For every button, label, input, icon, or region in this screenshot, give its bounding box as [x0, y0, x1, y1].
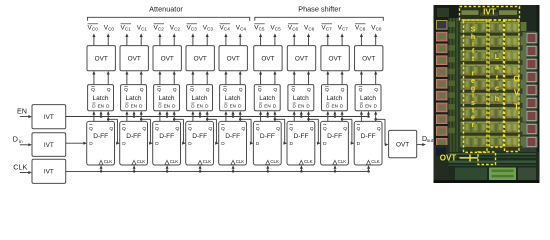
- annotation vertical label OVT column: [513, 75, 519, 112]
- svg-text:EN: EN: [230, 104, 236, 109]
- svg-text:Q: Q: [173, 87, 177, 93]
- latch Latch9: [355, 85, 381, 111]
- annotation label IVT: [483, 8, 496, 17]
- svg-text:C7: C7: [326, 27, 332, 32]
- op-amp OVT9 output voltage translator: [355, 46, 383, 71]
- svg-text:CLK: CLK: [137, 159, 146, 164]
- latch Latch4: [187, 85, 213, 111]
- node Vbar_C4 control output: [220, 24, 231, 32]
- svg-text:Q: Q: [155, 126, 159, 132]
- svg-text:EN: EN: [365, 104, 371, 109]
- svg-text:Q: Q: [356, 126, 360, 132]
- svg-text:Q: Q: [239, 87, 243, 93]
- svg-text:OVT: OVT: [362, 56, 375, 63]
- flip-flop DFF4: [186, 121, 214, 165]
- wire DFF1 Q to Latch1 D, junction: [107, 111, 110, 121]
- wire Latch3 Qbar to OVT3: [158, 71, 161, 85]
- wire DFF7 Q to Latch7 D, junction: [307, 111, 310, 121]
- node Vbar_C1 control output: [121, 24, 132, 32]
- svg-text:Latch: Latch: [360, 95, 376, 102]
- flip-flop DFF7: [287, 121, 315, 165]
- label Phase shifter group title: [298, 4, 341, 13]
- wire DFF2 Qbar to Latch2 Dbar: [125, 111, 128, 121]
- svg-text:OVT: OVT: [261, 56, 274, 63]
- wire Latch2 Qbar to OVT2: [125, 71, 128, 85]
- chip standard-cell rows: [460, 19, 520, 152]
- node V_C8 control output: [371, 24, 382, 31]
- wire DFF3 Qbar to Latch3 Dbar: [158, 111, 161, 121]
- chip bottom traces: [434, 145, 540, 183]
- svg-text:i: i: [472, 41, 474, 48]
- svg-text:C1: C1: [125, 27, 131, 32]
- wire OVT8 output V_C7: [341, 33, 344, 45]
- node V_C2 control output: [170, 24, 181, 31]
- svg-text:Q: Q: [323, 126, 327, 132]
- svg-text:C0: C0: [108, 27, 114, 32]
- chip routing strip: [448, 18, 460, 152]
- svg-text:out: out: [427, 138, 434, 144]
- svg-text:Phase shifter: Phase shifter: [298, 4, 341, 13]
- svg-text:Q: Q: [142, 126, 146, 132]
- node Vbar_C0 control output: [88, 24, 99, 32]
- annotation label OVT with pointer: [440, 154, 478, 163]
- svg-text:IVT: IVT: [483, 8, 496, 17]
- wire Latch4 Qbar to OVT4: [191, 71, 194, 85]
- svg-text:CLK: CLK: [13, 163, 27, 172]
- wire OVT2 output V_C1: [140, 33, 143, 45]
- svg-text:OVT: OVT: [396, 142, 409, 149]
- svg-text:Q: Q: [91, 87, 95, 93]
- wire DFF1 Qbar to Latch1 Dbar: [92, 111, 95, 121]
- svg-text:C1: C1: [141, 27, 147, 32]
- svg-text:Q: Q: [140, 87, 144, 93]
- node Vbar_C7 control output: [321, 24, 332, 32]
- inverter IVT2 (Din buffer): [32, 133, 66, 157]
- wire CLK bus tap to DFF9, junction: [367, 165, 370, 172]
- wire OVT6 output V_C5: [273, 33, 276, 45]
- wire CLK bus: [66, 170, 369, 172]
- wire Latch7 Qbar to OVT7: [293, 71, 296, 85]
- svg-text:Q: Q: [190, 87, 194, 93]
- wire Latch1 Qbar to OVT1: [92, 71, 95, 85]
- op-amp OVT4 output voltage translator: [186, 46, 214, 71]
- annotation Shift register dashed box: [464, 20, 488, 152]
- wire DFF8 Qbar to Latch8 Dbar: [326, 111, 329, 121]
- svg-text:IVT: IVT: [44, 142, 54, 149]
- svg-text:Latch: Latch: [159, 95, 175, 102]
- svg-text:Q: Q: [241, 126, 245, 132]
- wire EN bus: [66, 116, 369, 118]
- label Attenuator group title: [149, 4, 183, 13]
- svg-text:Latch: Latch: [293, 95, 309, 102]
- chip micrograph background: [434, 5, 540, 183]
- wire OVT9 output V_C8: [374, 33, 377, 45]
- svg-text:Q: Q: [256, 126, 260, 132]
- wire Latch3 Q to OVT3: [173, 71, 176, 85]
- wire EN bus tap to Latch4 EN, junction: [198, 111, 201, 118]
- svg-text:Q: Q: [221, 126, 225, 132]
- wire DFF6 Q to DFF7 D: [275, 119, 287, 144]
- svg-text:EN: EN: [131, 104, 137, 109]
- svg-text:D-FF: D-FF: [225, 133, 240, 140]
- svg-text:EN: EN: [264, 104, 270, 109]
- svg-text:C5: C5: [275, 27, 281, 32]
- svg-text:CLK: CLK: [304, 159, 313, 164]
- wire DFF5 Q to DFF6 D: [240, 119, 253, 144]
- wire CLK input to IVT3: [20, 171, 32, 174]
- latch Latch1: [88, 85, 114, 111]
- svg-text:C7: C7: [342, 27, 348, 32]
- wire DFF7 Qbar to Latch7 Dbar: [293, 111, 296, 121]
- svg-text:D-FF: D-FF: [260, 133, 275, 140]
- node V_C0 control output: [104, 24, 115, 31]
- node V_C6 control output: [304, 24, 315, 31]
- flip-flop DFF9: [354, 121, 382, 165]
- inverter IVT3 (CLK buffer): [32, 159, 66, 183]
- svg-text:C3: C3: [191, 27, 197, 32]
- wire EN bus tap to Latch6 EN, junction: [266, 111, 269, 118]
- svg-text:Q: Q: [107, 87, 111, 93]
- svg-text:g: g: [471, 85, 475, 92]
- svg-text:CLK: CLK: [270, 159, 279, 164]
- svg-text:C5: C5: [259, 27, 265, 32]
- flip-flop DFF2: [120, 121, 148, 165]
- wire Latch4 Q to OVT4: [206, 71, 209, 85]
- node V_C7 control output: [338, 24, 349, 31]
- svg-text:C4: C4: [240, 27, 246, 32]
- wire DFF2 Q to DFF3 D: [141, 119, 153, 144]
- wire OVT9 output Vbar_C8: [360, 33, 363, 45]
- wire OVT8 output Vbar_C7: [326, 33, 329, 45]
- op-amp OVT2 output voltage translator: [120, 46, 148, 71]
- latch Latch7: [288, 85, 314, 111]
- svg-text:EN: EN: [17, 107, 27, 116]
- svg-text:Attenuator: Attenuator: [149, 4, 183, 13]
- svg-text:OVT: OVT: [227, 56, 240, 63]
- wire CLK bus tap to DFF6, junction: [266, 165, 269, 172]
- latch Latch3: [154, 85, 180, 111]
- flip-flop DFF5: [219, 121, 247, 165]
- wire DFF3 Q to Latch3 D, junction: [173, 111, 176, 121]
- annotation vertical label Shift register: [471, 27, 476, 130]
- svg-text:Q: Q: [377, 126, 381, 132]
- wire Latch5 Q to OVT5: [239, 71, 242, 85]
- svg-text:Q: Q: [223, 87, 227, 93]
- svg-text:CLK: CLK: [236, 159, 245, 164]
- svg-text:D: D: [13, 135, 18, 144]
- wire OVT5 output Vbar_C4: [224, 33, 227, 45]
- svg-text:Q: Q: [109, 126, 113, 132]
- svg-text:Q: Q: [273, 87, 277, 93]
- flip-flop DFF6: [253, 121, 281, 165]
- svg-text:OVT: OVT: [95, 56, 108, 63]
- svg-text:e: e: [471, 115, 475, 122]
- svg-text:L: L: [495, 52, 500, 61]
- svg-text:Q: Q: [276, 126, 280, 132]
- svg-text:C8: C8: [359, 27, 365, 32]
- wire Latch5 Qbar to OVT5: [224, 71, 227, 85]
- node Din input: [13, 135, 23, 145]
- wire DFF4 Q to Latch4 D, junction: [206, 111, 209, 121]
- annotation OVT column dashed box: [505, 20, 520, 152]
- wire DFF6 Q to Latch6 D, junction: [273, 111, 276, 121]
- svg-text:C8: C8: [376, 27, 382, 32]
- svg-text:D-FF: D-FF: [361, 133, 376, 140]
- svg-text:C3: C3: [207, 27, 213, 32]
- svg-text:h: h: [495, 94, 499, 103]
- wire DFF8 Q to Latch8 D, junction: [341, 111, 344, 121]
- annotation vertical label Latch: [495, 52, 500, 103]
- bracket Phase shifter group: [255, 17, 383, 21]
- op-amp OVT1 output voltage translator: [87, 46, 115, 71]
- wire Latch2 Q to OVT2: [140, 71, 143, 85]
- svg-text:S: S: [471, 27, 476, 34]
- svg-text:s: s: [471, 100, 475, 107]
- svg-text:C2: C2: [174, 27, 180, 32]
- wire Latch8 Q to OVT8: [341, 71, 344, 85]
- svg-text:Q: Q: [289, 126, 293, 132]
- svg-text:CLK: CLK: [104, 159, 113, 164]
- wire CLK bus tap to DFF5, junction: [232, 165, 235, 172]
- node V_C4 control output: [236, 24, 247, 31]
- svg-text:C6: C6: [292, 27, 298, 32]
- node Vbar_C8 control output: [355, 24, 366, 32]
- svg-text:Q: Q: [359, 87, 363, 93]
- svg-text:D-FF: D-FF: [159, 133, 174, 140]
- svg-text:D-FF: D-FF: [293, 133, 308, 140]
- svg-text:Q: Q: [175, 126, 179, 132]
- wire CLK bus tap to DFF1, junction: [100, 165, 103, 172]
- chip pads left column: [437, 21, 448, 148]
- wire Din input to IVT2: [20, 143, 32, 146]
- svg-text:D: D: [357, 141, 361, 146]
- wire EN bus tap to Latch8 EN, junction: [333, 111, 336, 118]
- op-amp OVT10 output driver: [389, 130, 417, 157]
- svg-text:OVT: OVT: [440, 154, 457, 163]
- annotation Latch dashed box: [489, 20, 504, 147]
- latch Latch5: [220, 85, 246, 111]
- wire DFF9 Qbar to Latch9 Dbar: [360, 111, 363, 121]
- wire OVT6 output Vbar_C5: [259, 33, 262, 45]
- latch Latch6: [254, 85, 280, 111]
- wire OVT3 output Vbar_C2: [158, 33, 161, 45]
- wire CLK bus tap to DFF8, junction: [333, 165, 336, 172]
- wire OVT3 output V_C2: [173, 33, 176, 45]
- node EN input: [17, 107, 27, 116]
- svg-text:CLK: CLK: [371, 159, 380, 164]
- svg-text:Q: Q: [208, 126, 212, 132]
- wire EN bus tap to Latch1 EN, junction: [99, 111, 102, 118]
- wire CLK bus tap to DFF2, junction: [133, 165, 136, 172]
- svg-text:D: D: [188, 141, 192, 146]
- svg-text:C6: C6: [308, 27, 314, 32]
- wire CLK bus tap to DFF4, junction: [199, 165, 202, 172]
- svg-text:Q: Q: [188, 126, 192, 132]
- svg-text:Q: Q: [206, 87, 210, 93]
- flip-flop DFF8: [321, 121, 349, 165]
- node V_C3 control output: [203, 24, 214, 31]
- svg-text:D-FF: D-FF: [192, 133, 207, 140]
- svg-text:O: O: [513, 75, 519, 84]
- wire Latch7 Q to OVT7: [307, 71, 310, 85]
- svg-text:Latch: Latch: [326, 95, 342, 102]
- svg-text:OVT: OVT: [295, 56, 308, 63]
- wire OVT1 output Vbar_C0: [92, 33, 95, 45]
- svg-text:T: T: [514, 103, 519, 112]
- wire EN bus tap to Latch2 EN, junction: [132, 111, 135, 118]
- svg-text:C4: C4: [224, 27, 230, 32]
- svg-text:EN: EN: [298, 104, 304, 109]
- node Vbar_C6 control output: [288, 24, 299, 32]
- node Vbar_C2 control output: [154, 24, 165, 32]
- wire DFF7 Q to DFF8 D: [309, 119, 321, 144]
- svg-text:Q: Q: [89, 126, 93, 132]
- svg-text:CLK: CLK: [338, 159, 347, 164]
- flip-flop DFF3: [153, 121, 181, 165]
- svg-text:i: i: [472, 93, 474, 100]
- node Vbar_C5 control output: [254, 24, 265, 32]
- svg-text:e: e: [471, 78, 475, 85]
- wire OVT10 to Dout: [417, 143, 426, 146]
- wire DFF9 Q to output OVT: [376, 119, 389, 146]
- svg-text:CLK: CLK: [203, 159, 212, 164]
- svg-text:Q: Q: [374, 87, 378, 93]
- svg-text:CLK: CLK: [170, 159, 179, 164]
- svg-text:Q: Q: [343, 126, 347, 132]
- wire OVT7 output V_C6: [307, 33, 310, 45]
- op-amp OVT6 output voltage translator: [254, 46, 282, 71]
- node Dout output: [422, 136, 434, 144]
- svg-text:D-FF: D-FF: [93, 133, 108, 140]
- op-amp OVT8 output voltage translator: [321, 46, 349, 71]
- svg-text:IVT: IVT: [44, 169, 54, 176]
- wire OVT5 output V_C4: [239, 33, 242, 45]
- wire DFF6 Qbar to Latch6 Dbar: [259, 111, 262, 121]
- svg-text:D: D: [155, 141, 159, 146]
- wire Latch1 Q to OVT1: [107, 71, 110, 85]
- wire DFF1 Q to DFF2 D: [108, 119, 120, 144]
- node CLK input: [13, 163, 27, 172]
- svg-text:D: D: [122, 141, 126, 146]
- svg-text:EN: EN: [332, 104, 338, 109]
- svg-text:Q: Q: [291, 87, 295, 93]
- svg-text:D: D: [290, 141, 294, 146]
- svg-text:OVT: OVT: [161, 56, 174, 63]
- wire OVT2 output Vbar_C1: [125, 33, 128, 45]
- svg-text:Latch: Latch: [192, 95, 208, 102]
- wire EN bus tap to Latch3 EN, junction: [165, 111, 168, 118]
- wire DFF4 Qbar to Latch4 Dbar: [191, 111, 194, 121]
- svg-text:Q: Q: [325, 87, 329, 93]
- svg-text:Latch: Latch: [126, 95, 142, 102]
- svg-text:Latch: Latch: [259, 95, 275, 102]
- svg-text:Q: Q: [258, 87, 262, 93]
- svg-text:V: V: [514, 89, 520, 98]
- wire Latch8 Qbar to OVT8: [326, 71, 329, 85]
- wire OVT7 output Vbar_C6: [293, 33, 296, 45]
- chip pads right column: [523, 32, 538, 147]
- latch Latch2: [121, 85, 147, 111]
- inverter IVT1 (EN buffer): [32, 105, 66, 129]
- svg-text:Latch: Latch: [93, 95, 109, 102]
- svg-text:r: r: [472, 122, 475, 129]
- svg-text:Q: Q: [310, 126, 314, 132]
- svg-text:OVT: OVT: [128, 56, 141, 63]
- svg-text:OVT: OVT: [329, 56, 342, 63]
- svg-text:EN: EN: [164, 104, 170, 109]
- svg-text:EN: EN: [98, 104, 104, 109]
- svg-text:c: c: [495, 84, 499, 93]
- op-amp OVT7 output voltage translator: [287, 46, 315, 71]
- wire DFF2 Q to Latch2 D, junction: [140, 111, 143, 121]
- wire DFF5 Q to Latch5 D, junction: [239, 111, 242, 121]
- svg-text:D-FF: D-FF: [327, 133, 342, 140]
- op-amp OVT3 output voltage translator: [153, 46, 181, 71]
- annotation output OVT dashed box: [478, 152, 496, 165]
- svg-text:D-FF: D-FF: [126, 133, 141, 140]
- wire OVT1 output V_C0: [107, 33, 110, 45]
- wire OVT4 output V_C3: [206, 33, 209, 45]
- wire EN input to IVT1: [20, 115, 32, 118]
- svg-text:in: in: [19, 139, 23, 145]
- wire DFF5 Qbar to Latch5 Dbar: [224, 111, 227, 121]
- wire Latch9 Qbar to OVT9: [360, 71, 363, 85]
- wire DFF9 Q to Latch9 D, junction: [374, 111, 377, 121]
- node V_C5 control output: [270, 24, 281, 31]
- svg-text:Q: Q: [307, 87, 311, 93]
- annotation IVT dashed box: [460, 7, 520, 21]
- wire OVT4 output Vbar_C3: [191, 33, 194, 45]
- bracket Attenuator group: [88, 17, 250, 21]
- wire CLK bus tap to DFF7, junction: [300, 165, 303, 172]
- wire DFF8 Q to DFF9 D: [342, 119, 354, 144]
- wire Latch9 Q to OVT9: [374, 71, 377, 85]
- wire Latch6 Qbar to OVT6: [259, 71, 262, 85]
- wire EN bus tap to Latch9 EN, junction: [367, 111, 370, 118]
- svg-text:h: h: [471, 34, 475, 41]
- wire DFF4 Q to DFF5 D: [207, 119, 219, 144]
- svg-text:EN: EN: [197, 104, 203, 109]
- wire DFF3 Q to DFF4 D: [174, 119, 186, 144]
- svg-text:OVT: OVT: [194, 56, 207, 63]
- wire CLK bus tap to DFF3, junction: [166, 165, 169, 172]
- chip right cell column: [521, 22, 527, 146]
- svg-text:D: D: [89, 141, 93, 146]
- node Vbar_C3 control output: [187, 24, 198, 32]
- latch Latch8: [322, 85, 348, 111]
- chip IVT row: [460, 8, 519, 19]
- wire EN bus tap to Latch7 EN, junction: [300, 111, 303, 118]
- svg-text:C2: C2: [158, 27, 164, 32]
- svg-text:r: r: [472, 71, 475, 78]
- svg-text:IVT: IVT: [44, 114, 54, 121]
- wire Latch6 Q to OVT6: [273, 71, 276, 85]
- svg-text:D: D: [221, 141, 225, 146]
- svg-text:Q: Q: [122, 126, 126, 132]
- wire IVT2 to DFF1 D input: [66, 142, 87, 145]
- svg-text:Q: Q: [124, 87, 128, 93]
- svg-text:Q: Q: [341, 87, 345, 93]
- node V_C1 control output: [137, 24, 148, 31]
- wire EN bus tap to Latch5 EN, junction: [231, 111, 234, 118]
- flip-flop DFF1: [87, 121, 115, 165]
- svg-text:Q: Q: [157, 87, 161, 93]
- svg-text:C0: C0: [92, 27, 98, 32]
- svg-text:Latch: Latch: [225, 95, 241, 102]
- op-amp OVT5 output voltage translator: [219, 46, 247, 71]
